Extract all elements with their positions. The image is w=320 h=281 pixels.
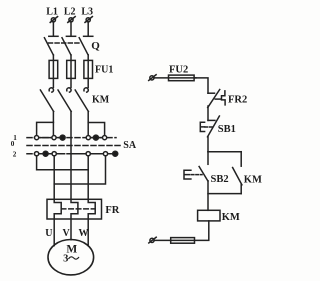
contactor KM main contact pole 3: [75, 88, 88, 112]
wire FU2 to FR2: [194, 78, 208, 93]
svg-text:FU1: FU1: [95, 65, 113, 76]
svg-text:FR: FR: [105, 205, 119, 216]
fuse FU1 pole 2: [67, 60, 76, 78]
svg-text:L2: L2: [64, 7, 76, 18]
breaker Q linkage dashed: [49, 42, 80, 44]
thermal contact FR2: [208, 90, 225, 108]
SA row 0 dashed line: [27, 145, 121, 147]
wire Q to FU1 pole 2: [70, 55, 72, 87]
wire KM pole2 through SA to FR element2: [71, 112, 78, 240]
coil KM box: [198, 210, 220, 221]
pushbutton SB1 NC: [200, 116, 219, 137]
SA row2 contacts closed: [43, 151, 118, 156]
wire SA row2 pole3 to FR element3: [88, 154, 95, 246]
wire FR2 to SB1: [207, 106, 209, 120]
svg-text:L1: L1: [46, 7, 58, 18]
breaker Q pole 1: [44, 36, 58, 55]
wire fuse to terminal: [154, 239, 194, 241]
svg-text:KM: KM: [92, 94, 110, 105]
contactor KM main contact pole 2: [58, 88, 71, 112]
wire terminal to FU2: [154, 77, 196, 79]
svg-text:L3: L3: [81, 7, 93, 18]
wire SB1 to branch: [207, 137, 209, 152]
SA row1 contacts open: [35, 136, 107, 140]
wire branch bottom: [208, 193, 241, 195]
svg-text:SA: SA: [123, 140, 137, 151]
terminal L1: [50, 17, 57, 23]
svg-text:Q: Q: [91, 40, 100, 52]
svg-text:KM: KM: [244, 174, 262, 185]
SA bracket right: [88, 123, 104, 138]
breaker Q pole 2: [62, 36, 76, 55]
svg-text:2: 2: [13, 151, 17, 159]
auxiliary contact KM NO: [233, 152, 242, 194]
motor M circle: [48, 240, 94, 275]
wire L1 to Q: [52, 22, 54, 36]
svg-text:KM: KM: [222, 212, 240, 223]
wire coil to bottom fuse: [195, 221, 209, 241]
wire SA row2 to FR element1: [54, 154, 61, 246]
contactor KM main contact pole 1: [40, 88, 53, 112]
wire Q to FU1 pole 1: [52, 55, 54, 87]
wire Q to FU1 pole 3: [87, 55, 89, 87]
svg-text:SB1: SB1: [218, 124, 236, 135]
wire KM pole1 to SA row1: [52, 112, 54, 138]
thermal relay FR linkage dashed: [61, 208, 95, 210]
SA row 2 solid segments: [34, 153, 64, 155]
svg-text:W: W: [79, 228, 89, 239]
wire L2 to Q: [70, 22, 72, 36]
svg-text:U: U: [45, 228, 52, 239]
SA row 1 solid segments: [34, 137, 64, 139]
SA row2 contacts open: [35, 152, 108, 156]
SA row1 contacts closed: [60, 135, 98, 140]
terminal L2: [68, 17, 75, 23]
SA row 2 dashed line: [27, 153, 118, 155]
wire KM pole3 to SA row1: [87, 112, 89, 138]
svg-text:0: 0: [11, 140, 15, 148]
fuse FU1 pole 3: [84, 60, 93, 78]
svg-text:V: V: [63, 228, 71, 239]
svg-text:3: 3: [63, 254, 68, 265]
SA bracket left: [37, 122, 54, 137]
wire branch top: [208, 151, 241, 153]
breaker Q pole 3: [79, 36, 93, 55]
wire L3 to Q: [87, 22, 89, 36]
SA row 1 dashed line: [27, 137, 116, 139]
thermal relay FR box: [47, 199, 102, 219]
svg-text:FR2: FR2: [228, 94, 247, 105]
pushbutton SB2 NO: [184, 152, 208, 211]
fuse FU1 pole 1: [49, 60, 58, 78]
control: terminal bottom: [149, 237, 156, 243]
svg-text:FU2: FU2: [169, 64, 188, 75]
svg-text:SB2: SB2: [211, 174, 229, 185]
fuse FU2 bottom: [171, 238, 195, 244]
wire SA row2 left stub + crossover H1: [37, 154, 89, 170]
control: terminal top: [149, 75, 156, 81]
wire crossover H2 with riser: [54, 154, 105, 184]
fuse FU2: [169, 75, 195, 81]
terminal L3: [85, 17, 92, 23]
